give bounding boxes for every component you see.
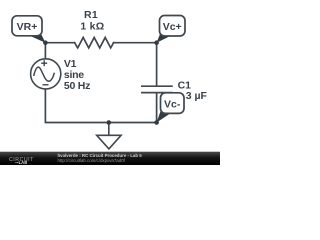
wire bottom rail <box>45 122 156 124</box>
footer annotation text <box>58 153 143 158</box>
svg-text:–▪LAB: –▪LAB <box>15 160 27 165</box>
node junction dot top-right <box>154 40 159 45</box>
wire capacitor bottom to bottom-right node <box>156 93 158 122</box>
wire resistor to top-right corner <box>114 42 157 44</box>
node junction dot left <box>43 40 48 45</box>
capacitor C1 <box>141 86 173 92</box>
node junction dot ground <box>107 120 112 125</box>
resistor R1 <box>75 38 114 48</box>
svg-text:50 Hz: 50 Hz <box>64 80 90 92</box>
label C1 value <box>178 80 208 102</box>
ground <box>97 123 121 149</box>
node Vc+ flag <box>157 16 185 43</box>
wire top-left node to resistor <box>45 42 74 44</box>
node junction dot bottom-right <box>154 120 159 125</box>
footer CircuitLab logo <box>9 157 34 163</box>
label R1 value <box>80 9 104 32</box>
wire right rail down to capacitor <box>156 43 158 86</box>
svg-text:http://circuitlab.com/c/dxpxva: http://circuitlab.com/c/dxpxva7ad0f <box>58 158 126 163</box>
svg-text:3 µF: 3 µF <box>186 90 208 102</box>
node Vc- flag <box>157 93 184 123</box>
wire left rail down to source <box>44 43 46 59</box>
node VR+ flag <box>12 16 45 43</box>
voltage source V1 <box>31 59 61 89</box>
svg-text:Vc+: Vc+ <box>163 21 182 33</box>
wire source bottom to bottom rail <box>44 89 46 122</box>
svg-text:1 kΩ: 1 kΩ <box>80 20 104 32</box>
svg-text:VR+: VR+ <box>17 21 38 33</box>
svg-text:Vc-: Vc- <box>164 99 181 111</box>
label V1 value <box>64 58 90 92</box>
